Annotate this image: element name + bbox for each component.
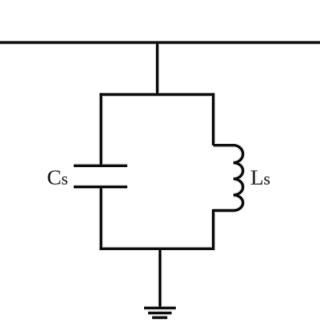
svg-text:Cs: Cs xyxy=(47,165,68,189)
svg-text:Ls: Ls xyxy=(251,165,271,189)
